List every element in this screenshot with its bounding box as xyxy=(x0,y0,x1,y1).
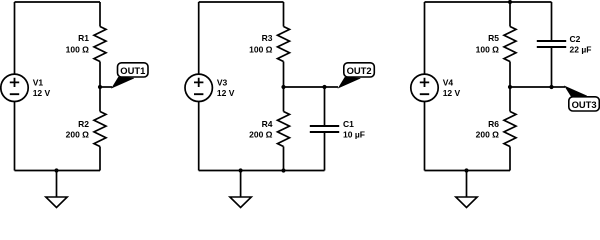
ground circuit 2 xyxy=(230,171,251,208)
junction node OUT1 xyxy=(98,85,102,89)
svg-text:OUT2: OUT2 xyxy=(347,65,372,76)
wire: node OUT2 horizontal to C1 branch xyxy=(284,86,325,88)
label R4 xyxy=(262,119,273,129)
svg-text:V1: V1 xyxy=(33,78,44,88)
junction ground tap circuit 2 xyxy=(239,168,243,172)
wire: top rail V4+ to C2 top xyxy=(425,1,552,3)
flag OUT3 pointer xyxy=(565,86,587,97)
flag OUT1 box xyxy=(118,63,149,77)
wire: R2 bottom lead xyxy=(99,147,101,171)
svg-text:R5: R5 xyxy=(488,33,499,43)
wire: R5 bottom to R6 top through node OUT3 xyxy=(509,62,511,112)
svg-text:OUT3: OUT3 xyxy=(572,99,597,110)
label C2 xyxy=(570,34,581,44)
svg-text:100 Ω: 100 Ω xyxy=(476,44,500,54)
voltage source V4 xyxy=(411,74,438,101)
svg-text:R6: R6 xyxy=(488,119,499,129)
wire: bottom rail V1- to R2 bottom xyxy=(15,170,101,172)
wire: stub from node to OUT1 flag xyxy=(100,86,112,88)
wire: C1 top lead xyxy=(324,87,326,126)
junction node OUT2 at R3-R4 xyxy=(281,85,285,89)
junction R5 top rail xyxy=(508,0,512,4)
label OUT1 xyxy=(120,65,145,76)
wire: left branch above V1 xyxy=(14,2,16,74)
flag OUT2 box xyxy=(344,63,375,77)
voltage source V1 xyxy=(1,74,28,101)
flag OUT1 pointer xyxy=(112,77,134,88)
label R6 value 200 ohm xyxy=(476,129,500,139)
svg-text:12 V: 12 V xyxy=(443,88,461,98)
svg-text:100 Ω: 100 Ω xyxy=(66,44,90,54)
svg-text:R3: R3 xyxy=(262,33,273,43)
wire: R1 bottom to R2 top through node OUT1 xyxy=(99,62,101,112)
svg-text:OUT1: OUT1 xyxy=(120,65,145,76)
svg-text:200 Ω: 200 Ω xyxy=(249,129,273,139)
resistor R4 xyxy=(278,112,290,147)
svg-text:C1: C1 xyxy=(343,119,354,129)
label OUT3 xyxy=(572,99,597,110)
wire: R3 bottom to R4 top through node OUT2 xyxy=(283,62,285,112)
wire: C1 bottom lead xyxy=(324,132,326,171)
label R2 xyxy=(78,119,89,129)
label V1 xyxy=(33,78,44,88)
capacitor C1 xyxy=(310,126,339,132)
label R3 xyxy=(262,33,273,43)
ground circuit 1 xyxy=(46,171,67,208)
svg-text:10 µF: 10 µF xyxy=(343,129,365,139)
label V4 value 12 V xyxy=(443,88,461,98)
flag OUT2 pointer xyxy=(338,77,360,88)
label V4 xyxy=(443,78,454,88)
label V3 value 12 V xyxy=(217,88,235,98)
label V3 xyxy=(217,78,228,88)
resistor R3 xyxy=(278,27,290,62)
wire: R4 bottom lead xyxy=(283,147,285,171)
junction ground tap circuit 1 xyxy=(54,168,58,172)
label R6 xyxy=(488,119,499,129)
label R3 value 100 ohm xyxy=(249,44,273,54)
svg-text:V4: V4 xyxy=(443,78,454,88)
svg-text:C2: C2 xyxy=(570,34,581,44)
wire: left branch below V3 xyxy=(198,102,200,171)
label R1 value 100 ohm xyxy=(66,44,90,54)
svg-text:100 Ω: 100 Ω xyxy=(249,44,273,54)
junction node OUT3 at C2 tap xyxy=(549,85,553,89)
wire: C2 top lead xyxy=(551,2,553,41)
label C2 value 22 uF xyxy=(570,44,592,54)
wire: left branch above V4 xyxy=(424,2,426,74)
resistor R5 xyxy=(504,27,516,62)
label R2 value 200 ohm xyxy=(66,129,90,139)
capacitor C2 xyxy=(537,41,566,47)
resistor R6 xyxy=(504,112,516,147)
wire: top rail V3+ to R3 top xyxy=(199,1,284,3)
junction node OUT2 at C1 tap xyxy=(322,85,326,89)
wire: C2 bottom lead xyxy=(551,47,553,87)
svg-text:R2: R2 xyxy=(78,119,89,129)
junction node OUT3 at R5-R6 xyxy=(508,85,512,89)
ground circuit 3 xyxy=(456,171,477,208)
svg-text:R4: R4 xyxy=(262,119,273,129)
wire: node OUT3 horizontal to C2 branch xyxy=(510,86,552,88)
wire: R3 top lead xyxy=(283,2,285,27)
wire: R1 top lead xyxy=(99,2,101,27)
wire: top rail V1+ to R1 top xyxy=(15,1,101,3)
label C1 value 10 uF xyxy=(343,129,365,139)
svg-text:12 V: 12 V xyxy=(33,88,51,98)
svg-text:22 µF: 22 µF xyxy=(570,44,592,54)
svg-text:V3: V3 xyxy=(217,78,228,88)
wire: stub from C1 tap to OUT2 flag xyxy=(325,86,339,88)
label R5 value 100 ohm xyxy=(476,44,500,54)
svg-text:R1: R1 xyxy=(78,33,89,43)
wire: bottom rail V3- to C1 bottom xyxy=(199,170,325,172)
wire: bottom rail V4- to R6 bottom xyxy=(425,170,511,172)
svg-text:12 V: 12 V xyxy=(217,88,235,98)
wire: left branch above V3 xyxy=(198,2,200,74)
resistor R1 xyxy=(94,27,106,62)
wire: left branch below V1 xyxy=(14,102,16,171)
label V1 value 12 V xyxy=(33,88,51,98)
label R4 value 200 ohm xyxy=(249,129,273,139)
wire: R6 bottom lead xyxy=(509,147,511,171)
wire: R5 top lead xyxy=(509,2,511,27)
svg-text:200 Ω: 200 Ω xyxy=(476,129,500,139)
voltage source V3 xyxy=(185,74,212,101)
resistor R2 xyxy=(94,112,106,147)
junction ground tap circuit 3 xyxy=(464,168,468,172)
flag OUT3 box xyxy=(569,97,600,111)
svg-text:200 Ω: 200 Ω xyxy=(66,129,90,139)
wire: left branch below V4 xyxy=(424,102,426,171)
junction R4 bottom rail xyxy=(281,168,285,172)
label R5 xyxy=(488,33,499,43)
label R1 xyxy=(78,33,89,43)
label C1 xyxy=(343,119,354,129)
label OUT2 xyxy=(347,65,372,76)
wire: stub from C2 tap to OUT3 flag xyxy=(552,86,566,88)
